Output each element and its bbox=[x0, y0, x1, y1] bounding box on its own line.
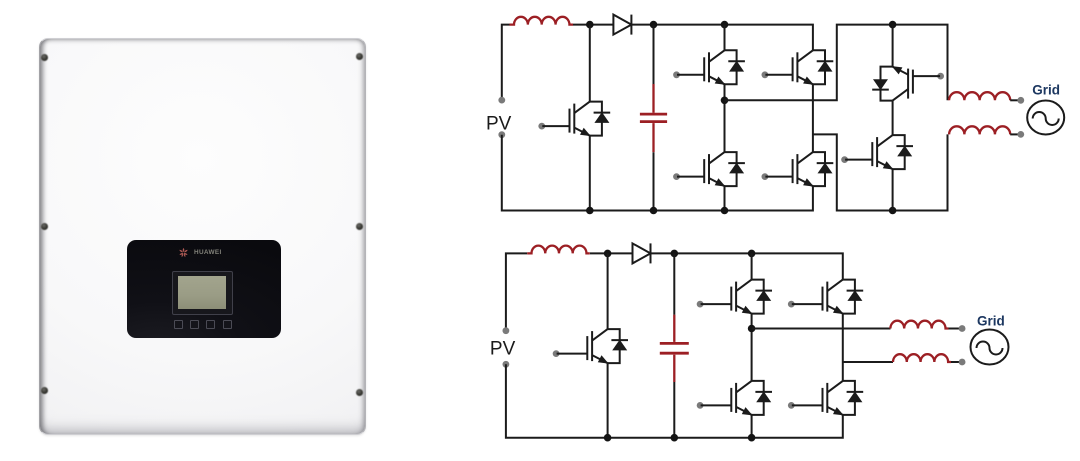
button 3 bbox=[206, 320, 215, 329]
transistor Q7 (bypass bottom IGBT) bbox=[841, 135, 913, 170]
node: L1 / boost collector bbox=[586, 21, 594, 29]
wire: leg1 column bbox=[724, 25, 726, 211]
inductor L1 (boost, red) bbox=[510, 17, 574, 25]
wire: top rail left segment bbox=[506, 253, 633, 330]
Huawei logo flower bbox=[178, 247, 189, 258]
diode D1 bbox=[613, 15, 631, 35]
wire: left rail lower / bottom rail (bottom circuit) bbox=[506, 364, 843, 437]
node: leg1 midpoint bbox=[721, 97, 729, 105]
wire: leg1 midpoint to bypass top rail bbox=[725, 25, 948, 101]
transistor Q8 (boost IGBT, bottom circuit) bbox=[553, 329, 628, 364]
LCD bezel bbox=[172, 271, 233, 315]
wire: lower output stub bbox=[1010, 133, 1018, 135]
screw bottom-right bbox=[356, 389, 363, 396]
wire: upper output stub bbox=[1010, 99, 1018, 101]
node: leg1 bottom (bottom circuit) bbox=[748, 434, 756, 442]
node: leg1 bottom bbox=[721, 207, 729, 215]
wire: leg1 midpoint to upper output bbox=[752, 328, 891, 330]
wire: leg1 column (bottom circuit) bbox=[751, 253, 753, 437]
node: leg1 top bbox=[721, 21, 729, 29]
wire: boost IGBT collector bbox=[589, 25, 591, 102]
wire: capacitor column black parts bbox=[653, 25, 655, 211]
wire: boost IGBT emitter bbox=[589, 136, 591, 211]
capacitor C1 (red) bbox=[640, 84, 667, 152]
svg-text:Grid: Grid bbox=[977, 313, 1005, 328]
wire: left rail lower / bottom rail bbox=[502, 135, 813, 211]
Huawei logo text bbox=[194, 249, 222, 256]
AC source: grid (bottom circuit) bbox=[971, 330, 1009, 365]
wire: capacitor column black parts (bottom circuit) bbox=[673, 253, 675, 437]
node: capacitor top bbox=[671, 250, 679, 258]
transistor Q3 (leg1 bottom IGBT) bbox=[673, 152, 745, 187]
wire: upper output stub (bottom circuit) bbox=[949, 328, 960, 330]
node: capacitor bottom bbox=[650, 207, 658, 215]
transistor Q12 (leg2 bottom IGBT) bbox=[788, 381, 863, 416]
transistor Q1 (boost IGBT) bbox=[538, 102, 610, 137]
terminal: lower output (bottom circuit) bbox=[959, 359, 966, 366]
inductor L2 (upper output filter, red) bbox=[949, 92, 1010, 100]
wire: bypass leg column bbox=[892, 25, 894, 211]
transistor Q9 (leg1 top IGBT) bbox=[697, 280, 772, 315]
inductor L6 (lower output filter, red) bbox=[893, 354, 951, 362]
inverter photo: enclosure body bbox=[39, 38, 366, 435]
node: capacitor bottom (bottom circuit) bbox=[671, 434, 679, 442]
node: leg1 top bbox=[748, 250, 756, 258]
wire: leg2 midpoint to lower rail of bypass bbox=[813, 134, 948, 210]
node: bypass leg top bbox=[889, 21, 897, 29]
svg-text:Grid: Grid bbox=[1032, 83, 1060, 98]
inductor L3 (lower output filter, red) bbox=[949, 126, 1010, 134]
node: leg1 midpoint (bottom circuit) bbox=[748, 325, 756, 333]
PV terminal top bbox=[498, 97, 505, 104]
screw top-left bbox=[41, 54, 48, 61]
AC source: grid (top circuit) bbox=[1027, 101, 1064, 135]
terminal: lower output bbox=[1017, 131, 1024, 138]
transistor Q2 (leg1 top IGBT) bbox=[673, 50, 745, 85]
PV terminal top (bottom circuit) bbox=[503, 327, 510, 334]
node: bypass leg bottom bbox=[889, 207, 897, 215]
wire: leg2 column (bottom circuit) bbox=[842, 314, 844, 381]
node: boost emitter at bottom rail (bottom circuit) bbox=[604, 434, 612, 442]
inductor L4 (boost, red) bbox=[527, 246, 590, 254]
wire: top rail from diode to leg2 bbox=[631, 25, 813, 51]
button 1 bbox=[174, 320, 183, 329]
screw bottom-left bbox=[41, 387, 48, 394]
capacitor C2 (red) bbox=[660, 315, 689, 382]
PV terminal bottom (bottom circuit) bbox=[503, 361, 510, 368]
transistor Q11 (leg2 top IGBT) bbox=[788, 280, 863, 315]
transistor Q10 (leg1 bottom IGBT) bbox=[697, 381, 772, 416]
wire: leg2 column mid segment bbox=[812, 84, 814, 152]
inductor L5 (upper output filter, red) bbox=[890, 321, 948, 329]
transistor Q4 (leg2 top IGBT) bbox=[762, 50, 834, 85]
diode D2 bbox=[633, 243, 651, 263]
terminal: upper output (bottom circuit) bbox=[959, 325, 966, 332]
wire: boost IGBT collector (bottom circuit) bbox=[607, 253, 609, 329]
transistor Q6 (bypass top IGBT, rotated) bbox=[872, 66, 944, 101]
wire: lower output stub (bottom circuit) bbox=[951, 361, 959, 363]
screw mid-left bbox=[41, 223, 48, 230]
node: boost emitter at bottom rail bbox=[586, 207, 594, 215]
node: capacitor top bbox=[650, 21, 658, 29]
transistor Q5 (leg2 bottom IGBT) bbox=[762, 152, 834, 187]
node: L4 / boost collector bbox=[604, 250, 612, 258]
wire: top rail left segment bbox=[502, 25, 614, 101]
screw mid-right bbox=[356, 223, 363, 230]
wire: leg2 midpoint to lower output bbox=[843, 361, 893, 363]
svg-text:PV: PV bbox=[486, 114, 512, 135]
LCD screen bbox=[178, 276, 226, 309]
screw top-right bbox=[356, 53, 363, 60]
terminal: upper output bbox=[1017, 97, 1024, 104]
button 4 bbox=[223, 320, 232, 329]
display panel bbox=[127, 240, 281, 338]
PV terminal bottom bbox=[498, 131, 505, 138]
wire: boost IGBT emitter (bottom circuit) bbox=[607, 363, 609, 438]
svg-text:PV: PV bbox=[490, 339, 516, 360]
button 2 bbox=[190, 320, 199, 329]
wire: top rail from diode to leg2 bbox=[651, 253, 843, 279]
